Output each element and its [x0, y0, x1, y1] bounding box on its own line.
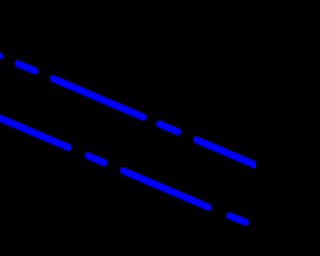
saturated core layer of both dashed lines: [0, 52, 266, 222]
mid falloff layer of both dashed lines: [0, 52, 266, 222]
soft outer glow layer of both dashed lines: [0, 52, 266, 222]
